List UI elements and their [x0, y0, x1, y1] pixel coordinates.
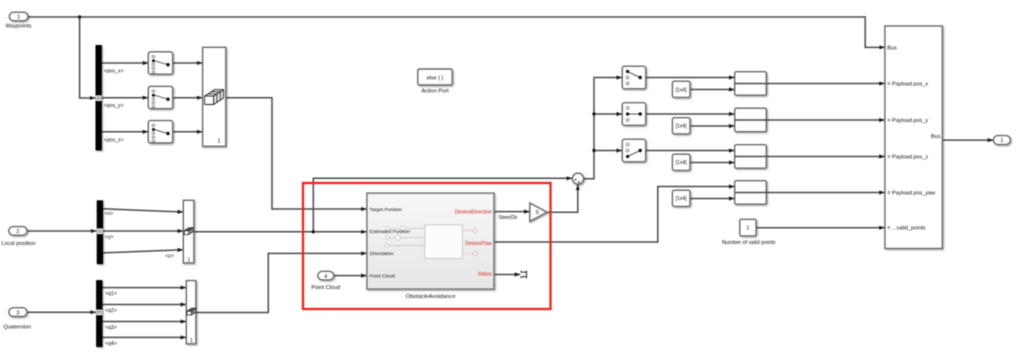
svg-text:[1x4]: [1x4] [676, 87, 687, 93]
svg-text:5: 5 [536, 210, 539, 216]
svg-text:Action Port: Action Port [421, 88, 449, 94]
svg-text:DesiredYaw: DesiredYaw [465, 241, 492, 247]
svg-text:Orientation: Orientation [370, 251, 394, 257]
svg-text:<pos_y>: <pos_y> [104, 103, 124, 109]
svg-text:<y>: <y> [105, 234, 114, 240]
svg-text:= ...valid_points: = ...valid_points [887, 226, 926, 232]
svg-text:= Payload.pos_z: = Payload.pos_z [887, 154, 928, 160]
svg-text:Point Cloud: Point Cloud [370, 273, 396, 279]
svg-text:<x>: <x> [105, 211, 114, 217]
svg-text:<z>: <z> [165, 254, 174, 260]
svg-text:Quaternion: Quaternion [3, 325, 31, 331]
svg-text:<q2>: <q2> [105, 308, 117, 314]
svg-text:= Payload.pos_x: = Payload.pos_x [887, 81, 928, 87]
svg-text:1: 1 [187, 257, 190, 263]
svg-text:ObstacleAvoidance: ObstacleAvoidance [406, 294, 456, 300]
svg-text:3: 3 [16, 310, 19, 316]
svg-text:Bus: Bus [887, 45, 897, 51]
svg-text:<q4>: <q4> [105, 341, 117, 347]
svg-text:1: 1 [218, 139, 221, 145]
svg-text:<q3>: <q3> [105, 325, 117, 331]
svg-text:Status: Status [478, 272, 493, 278]
svg-text:1: 1 [190, 338, 193, 344]
svg-text:2: 2 [16, 229, 19, 235]
svg-text:Waypoints: Waypoints [6, 23, 32, 29]
svg-text:= Payload.pos_yaw: = Payload.pos_yaw [887, 190, 935, 196]
svg-text:1: 1 [1000, 138, 1003, 144]
svg-text:DesiredDirection: DesiredDirection [455, 210, 492, 216]
svg-text:4: 4 [324, 274, 327, 280]
svg-text:[1x4]: [1x4] [676, 196, 687, 202]
svg-text:Estimated Position: Estimated Position [370, 229, 411, 235]
svg-text:[1x4]: [1x4] [676, 124, 687, 130]
svg-text:SteerDir: SteerDir [498, 215, 517, 221]
svg-text:= Payload.pos_y: = Payload.pos_y [887, 118, 928, 124]
svg-text:Target Position: Target Position [370, 207, 403, 213]
svg-text:<pos_x>: <pos_x> [104, 68, 124, 74]
svg-text:Local position: Local position [1, 241, 35, 247]
svg-text:Number of valid points: Number of valid points [722, 240, 776, 246]
svg-text:[1x4]: [1x4] [676, 160, 687, 166]
svg-text:else { }: else { } [427, 75, 444, 81]
svg-text:<q1>: <q1> [105, 291, 117, 297]
svg-text:<pos_z>: <pos_z> [104, 137, 124, 143]
svg-text:Point Cloud: Point Cloud [311, 285, 340, 291]
svg-text:1: 1 [746, 226, 749, 232]
svg-text:1: 1 [17, 15, 20, 21]
svg-text:Bus: Bus [931, 134, 941, 140]
